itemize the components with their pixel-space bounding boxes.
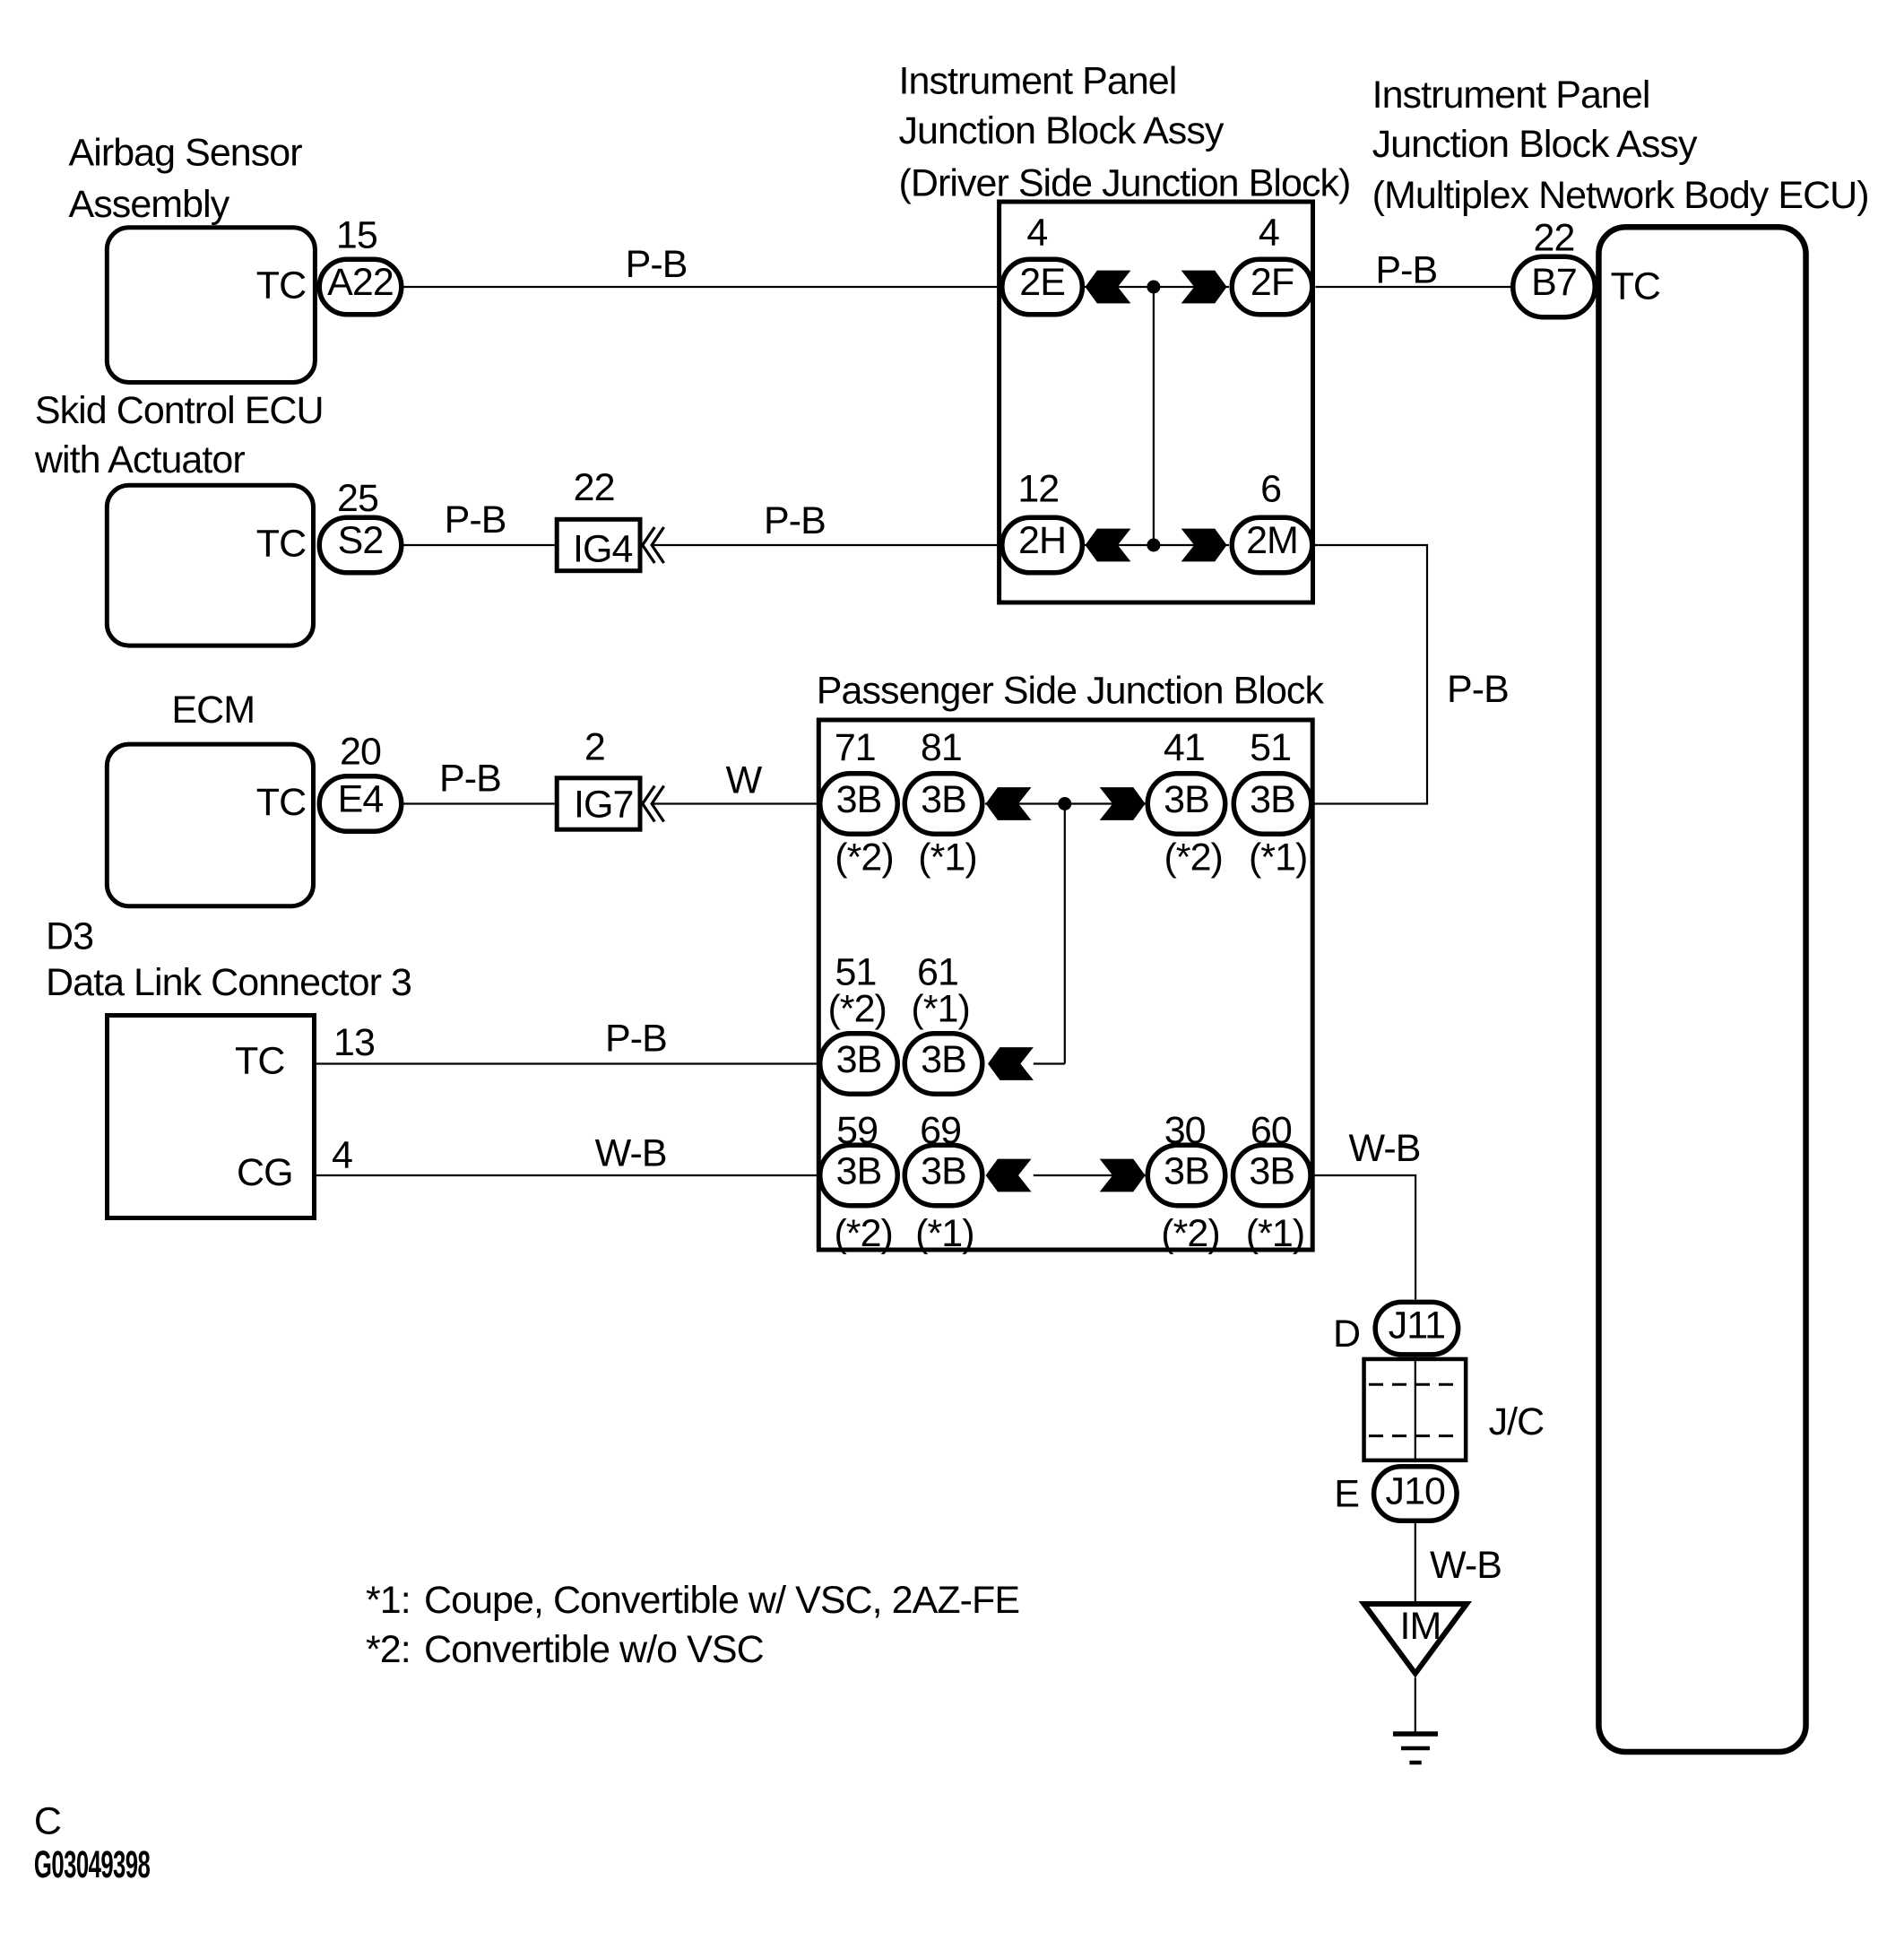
svg-text:3B: 3B <box>921 1038 966 1081</box>
svg-text:TC: TC <box>256 523 306 566</box>
svg-text:Instrument Panel: Instrument Panel <box>899 59 1177 102</box>
svg-text:Airbag Sensor: Airbag Sensor <box>69 132 303 175</box>
svg-text:60: 60 <box>1251 1109 1292 1152</box>
svg-text:*1:: *1: <box>366 1579 411 1622</box>
svg-text:S2: S2 <box>338 519 384 562</box>
svg-text:59: 59 <box>836 1109 878 1152</box>
svg-text:CG: CG <box>237 1151 293 1194</box>
svg-text:3B: 3B <box>836 1150 882 1193</box>
svg-text:3B: 3B <box>836 778 882 821</box>
svg-text:TC: TC <box>256 264 306 308</box>
svg-text:E4: E4 <box>338 778 384 821</box>
svg-text:(Driver Side Junction Block): (Driver Side Junction Block) <box>899 161 1351 204</box>
svg-text:4: 4 <box>1026 212 1047 255</box>
svg-text:22: 22 <box>574 466 615 509</box>
svg-text:IG4: IG4 <box>573 528 632 571</box>
svg-text:12: 12 <box>1017 468 1059 511</box>
svg-text:P-B: P-B <box>439 758 501 801</box>
svg-text:E: E <box>1334 1473 1359 1516</box>
svg-text:Skid Control ECU: Skid Control ECU <box>35 389 324 432</box>
svg-text:J/C: J/C <box>1489 1400 1545 1443</box>
svg-text:TC: TC <box>256 781 306 824</box>
svg-text:Junction Block Assy: Junction Block Assy <box>899 109 1225 152</box>
svg-text:(*1): (*1) <box>1246 1212 1305 1255</box>
svg-text:2F: 2F <box>1251 261 1294 304</box>
svg-text:51: 51 <box>1250 726 1291 769</box>
svg-text:81: 81 <box>921 726 962 769</box>
svg-text:6: 6 <box>1260 468 1281 511</box>
svg-text:Assembly: Assembly <box>69 183 230 226</box>
svg-text:22: 22 <box>1534 217 1575 260</box>
svg-text:(*1): (*1) <box>1249 836 1308 880</box>
svg-text:P-B: P-B <box>1375 249 1437 292</box>
svg-text:Coupe, Convertible w/ VSC, 2AZ: Coupe, Convertible w/ VSC, 2AZ-FE <box>424 1579 1019 1622</box>
svg-text:(*2): (*2) <box>827 987 887 1030</box>
svg-text:3B: 3B <box>1250 778 1295 821</box>
svg-text:D3: D3 <box>46 914 93 958</box>
svg-text:2M: 2M <box>1246 519 1298 562</box>
svg-text:IG7: IG7 <box>574 784 633 827</box>
svg-text:B7: B7 <box>1531 261 1577 304</box>
svg-text:3B: 3B <box>921 778 966 821</box>
svg-text:*2:: *2: <box>366 1628 411 1671</box>
svg-text:(*2): (*2) <box>1161 1212 1220 1255</box>
svg-text:TC: TC <box>235 1040 284 1083</box>
svg-text:4: 4 <box>1259 212 1279 255</box>
svg-text:Instrument Panel: Instrument Panel <box>1372 74 1650 117</box>
svg-text:P-B: P-B <box>764 499 826 542</box>
svg-text:J10: J10 <box>1386 1469 1446 1512</box>
svg-text:(*2): (*2) <box>1164 836 1223 880</box>
svg-text:13: 13 <box>333 1021 375 1064</box>
svg-text:2H: 2H <box>1018 519 1066 562</box>
svg-text:P-B: P-B <box>605 1018 667 1061</box>
svg-text:Passenger Side Junction Block: Passenger Side Junction Block <box>817 670 1325 713</box>
svg-text:3B: 3B <box>1164 1150 1209 1193</box>
svg-text:W-B: W-B <box>1349 1127 1421 1170</box>
svg-text:69: 69 <box>920 1109 961 1152</box>
svg-text:4: 4 <box>332 1133 352 1176</box>
svg-text:(Multiplex Network Body ECU): (Multiplex Network Body ECU) <box>1372 174 1869 217</box>
svg-text:Convertible w/o VSC: Convertible w/o VSC <box>424 1628 764 1671</box>
svg-text:P-B: P-B <box>626 243 688 286</box>
svg-text:(*1): (*1) <box>915 1212 974 1255</box>
svg-text:TC: TC <box>1611 265 1660 308</box>
svg-text:W-B: W-B <box>1430 1544 1502 1587</box>
svg-text:3B: 3B <box>921 1150 966 1193</box>
svg-text:15: 15 <box>336 214 377 257</box>
svg-text:71: 71 <box>835 726 876 769</box>
svg-text:with Actuator: with Actuator <box>34 438 245 481</box>
svg-text:2E: 2E <box>1019 261 1065 304</box>
svg-text:G03049398: G03049398 <box>34 1843 150 1886</box>
svg-text:30: 30 <box>1164 1109 1206 1152</box>
svg-text:(*2): (*2) <box>834 1212 893 1255</box>
svg-text:J11: J11 <box>1389 1304 1445 1347</box>
svg-text:3B: 3B <box>1164 778 1209 821</box>
svg-text:P-B: P-B <box>1447 668 1509 711</box>
svg-text:41: 41 <box>1164 726 1205 769</box>
svg-text:IM: IM <box>1400 1605 1441 1648</box>
svg-text:3B: 3B <box>1249 1150 1294 1193</box>
svg-text:D: D <box>1333 1313 1360 1356</box>
svg-text:20: 20 <box>340 731 381 774</box>
svg-text:Junction Block Assy: Junction Block Assy <box>1372 123 1698 166</box>
svg-text:ECM: ECM <box>171 689 255 732</box>
svg-text:(*2): (*2) <box>835 836 894 880</box>
svg-text:(*1): (*1) <box>918 836 977 880</box>
svg-text:3B: 3B <box>836 1038 882 1081</box>
svg-text:2: 2 <box>584 726 605 769</box>
svg-text:P-B: P-B <box>445 498 506 542</box>
svg-text:Data Link Connector 3: Data Link Connector 3 <box>46 961 411 1004</box>
svg-text:25: 25 <box>337 477 378 520</box>
svg-text:W-B: W-B <box>595 1132 667 1175</box>
svg-text:C: C <box>34 1800 61 1843</box>
svg-text:A22: A22 <box>327 261 394 304</box>
svg-text:W: W <box>726 758 763 802</box>
svg-text:(*1): (*1) <box>911 987 970 1030</box>
